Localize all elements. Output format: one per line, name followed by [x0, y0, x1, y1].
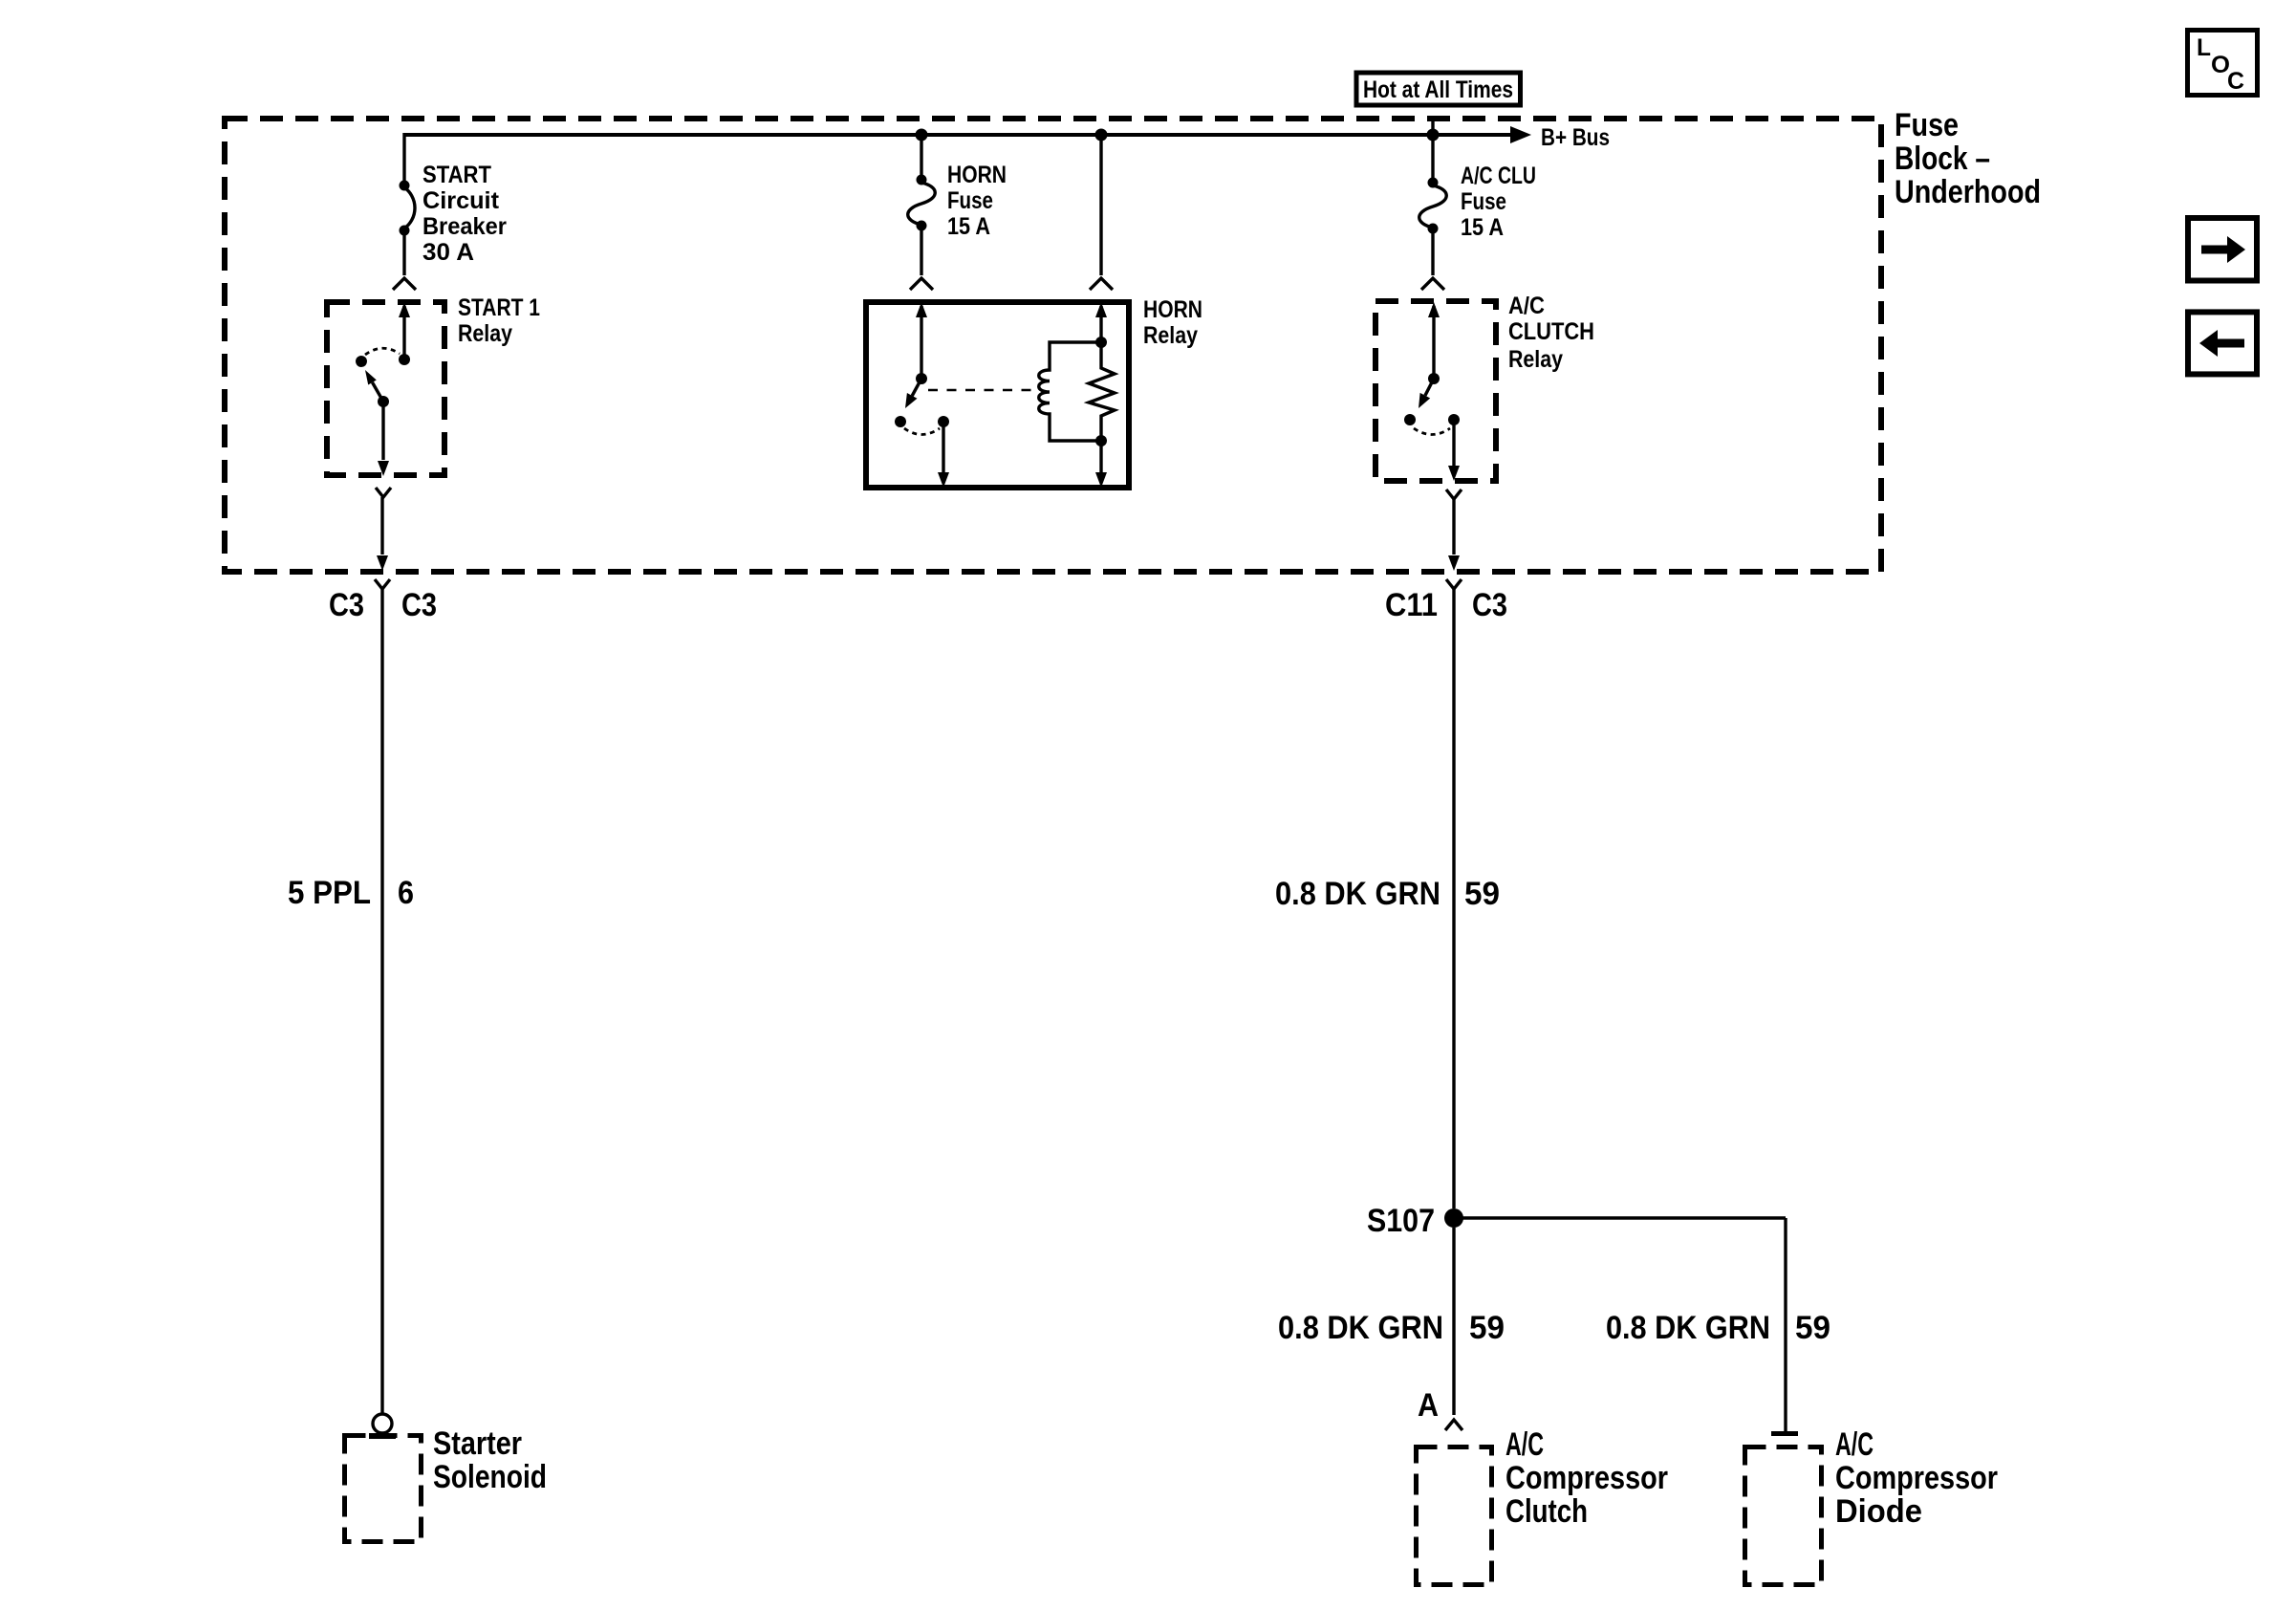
connector chevron into start relay — [393, 278, 416, 290]
label Starter Solenoid — [433, 1425, 547, 1495]
svg-text:A/C: A/C — [1508, 293, 1545, 319]
svg-text:A: A — [1418, 1387, 1439, 1424]
horn relay switch input line — [920, 306, 922, 379]
fuse block underhood dashed box — [225, 119, 1881, 572]
svg-text:C3: C3 — [1472, 587, 1507, 623]
label START Circuit Breaker 30 A — [422, 162, 507, 266]
svg-text:59: 59 — [1464, 876, 1500, 912]
svg-text:C3: C3 — [401, 587, 437, 623]
svg-text:Clutch: Clutch — [1505, 1493, 1588, 1530]
svg-text:0.8 DK GRN: 0.8 DK GRN — [1606, 1310, 1770, 1346]
wire arrow at fuse block exit left — [377, 555, 388, 571]
wire arrow at fuse block exit right — [1448, 555, 1460, 571]
ac relay switch arm with arrow — [1419, 379, 1434, 408]
junction dot bus-horn fuse — [916, 129, 928, 141]
wire bus to horn fuse — [920, 135, 922, 177]
start relay dashed actuation arc — [365, 348, 400, 355]
wire hot at all times into ac fuse — [1431, 116, 1434, 180]
ac compressor clutch dashed box — [1417, 1447, 1492, 1585]
connector chevron into horn relay left — [910, 278, 933, 290]
wire from bus to circuit breaker — [402, 133, 405, 182]
svg-text:Breaker: Breaker — [422, 213, 507, 240]
wire branch down to diode — [1784, 1218, 1787, 1432]
horn relay throw contact left — [895, 416, 906, 427]
wire B+ bus horizontal — [404, 133, 1512, 137]
fuse HORN 15A symbol — [908, 175, 936, 231]
svg-text:0.8 DK GRN: 0.8 DK GRN — [1275, 876, 1440, 912]
legend right arrow box — [2188, 218, 2257, 281]
svg-text:HORN: HORN — [1143, 296, 1202, 323]
label HORN Fuse 15 A — [947, 162, 1007, 240]
svg-text:Hot at All Times: Hot at All Times — [1363, 76, 1513, 103]
svg-text:Circuit: Circuit — [422, 187, 500, 214]
splice S107 dot — [1444, 1208, 1463, 1228]
start relay input arrow up — [399, 302, 410, 317]
svg-text:Diode: Diode — [1835, 1493, 1922, 1530]
starter solenoid dashed box — [345, 1436, 422, 1542]
svg-text:L: L — [2197, 34, 2211, 61]
label A/C CLUTCH Relay — [1508, 293, 1594, 373]
wire horn fuse to horn relay — [920, 228, 922, 275]
horn relay coil top node — [1095, 337, 1107, 348]
connector C3 fork below fuse block — [375, 579, 390, 589]
ac relay input line — [1432, 306, 1435, 379]
svg-text:C3: C3 — [329, 587, 364, 623]
ac relay switch pivot — [1428, 373, 1440, 384]
svg-text:Underhood: Underhood — [1895, 174, 2041, 210]
start relay common contact — [378, 396, 389, 407]
svg-text:A/C: A/C — [1505, 1426, 1544, 1463]
label A/C CLU Fuse 15 A — [1461, 163, 1536, 241]
svg-text:6: 6 — [398, 875, 414, 911]
fuse AC CLU 15A symbol — [1419, 178, 1447, 234]
circuit breaker START 30A symbol — [400, 181, 416, 236]
svg-text:Fuse: Fuse — [947, 187, 993, 214]
label START 1 Relay — [458, 294, 540, 347]
connector fork below start relay — [376, 488, 391, 555]
horn relay switch arm with arrow — [905, 379, 921, 408]
svg-text:START 1: START 1 — [458, 294, 540, 321]
connector chevron into clutch — [1445, 1420, 1462, 1430]
connector chevron into ac relay — [1421, 278, 1444, 290]
legend left arrow box — [2188, 312, 2257, 374]
start relay output line with arrow — [378, 402, 389, 476]
svg-text:59: 59 — [1795, 1310, 1830, 1346]
svg-text:Solenoid: Solenoid — [433, 1459, 547, 1495]
legend LOC box — [2188, 31, 2258, 96]
connector fork below ac relay — [1446, 490, 1462, 555]
svg-text:C11: C11 — [1385, 587, 1438, 623]
relay A/C CLUTCH dashed box — [1375, 301, 1496, 481]
wire c11 to splice S107 — [1452, 589, 1455, 1208]
svg-text:Relay: Relay — [1143, 322, 1198, 349]
horn relay actuation dashed link — [928, 389, 1034, 391]
ac relay dashed throw arc — [1414, 428, 1450, 435]
svg-text:Relay: Relay — [1508, 346, 1563, 373]
svg-text:C: C — [2227, 68, 2244, 95]
svg-text:59: 59 — [1469, 1310, 1505, 1346]
svg-text:CLUTCH: CLUTCH — [1508, 318, 1594, 345]
svg-text:S107: S107 — [1367, 1203, 1435, 1239]
svg-text:30 A: 30 A — [422, 239, 474, 266]
svg-text:Relay: Relay — [458, 320, 512, 347]
horn relay dashed throw arc — [904, 428, 940, 435]
wire bus to horn relay coil — [1099, 137, 1102, 275]
wire ac fuse to ac relay — [1431, 231, 1434, 275]
horn relay coil bottom node — [1095, 435, 1107, 446]
ac compressor diode dashed box — [1745, 1447, 1822, 1585]
junction dot bus-horn relay coil — [1095, 129, 1108, 141]
ac relay input arrow up — [1428, 302, 1440, 317]
horn relay switch pivot — [916, 373, 927, 384]
start relay switch arm with arrow — [365, 370, 383, 402]
svg-text:Fuse: Fuse — [1461, 188, 1506, 215]
relay START 1 dashed box — [327, 302, 444, 475]
starter solenoid ring terminal — [369, 1414, 396, 1439]
ac relay throw contact left — [1404, 414, 1416, 425]
svg-text:A/C CLU: A/C CLU — [1461, 163, 1536, 189]
label A/C Compressor Clutch — [1505, 1426, 1668, 1530]
label A/C Compressor Diode — [1835, 1426, 1998, 1530]
svg-text:A/C: A/C — [1835, 1426, 1874, 1463]
ac relay output line with arrow — [1448, 420, 1460, 481]
node Hot at All Times label box — [1356, 73, 1521, 105]
svg-text:START: START — [422, 162, 491, 188]
horn relay coil feed line — [1099, 306, 1102, 342]
svg-text:15 A: 15 A — [947, 213, 990, 240]
connector C11-C3 fork below fuse block — [1446, 579, 1462, 589]
horn relay switch input arrow up — [916, 302, 927, 317]
horn relay output line with arrow — [938, 422, 949, 488]
wire to starter solenoid — [380, 589, 383, 1414]
label Fuse Block - Underhood — [1895, 107, 2041, 210]
svg-text:Fuse: Fuse — [1895, 107, 1959, 143]
junction dot bus-ac fuse — [1427, 129, 1440, 141]
start relay fixed contact right — [399, 354, 410, 365]
connector chevron into horn relay right — [1090, 278, 1113, 290]
node B+ Bus arrow and label — [1510, 124, 1610, 151]
horn relay throw contact right — [938, 416, 949, 427]
wire splice to ac compressor clutch — [1452, 1228, 1455, 1415]
relay HORN solid box — [866, 302, 1129, 488]
horn relay resistor — [1089, 342, 1115, 441]
svg-text:Starter: Starter — [433, 1425, 522, 1462]
svg-text:B+ Bus: B+ Bus — [1541, 124, 1610, 151]
diode terminal bar — [1771, 1431, 1798, 1436]
start relay input line — [402, 306, 405, 359]
svg-text:0.8 DK GRN: 0.8 DK GRN — [1278, 1310, 1443, 1346]
svg-text:5 PPL: 5 PPL — [288, 875, 371, 911]
svg-text:15 A: 15 A — [1461, 214, 1504, 241]
horn relay coil feed arrow up — [1095, 302, 1107, 317]
svg-text:HORN: HORN — [947, 162, 1007, 188]
svg-text:Compressor: Compressor — [1835, 1460, 1998, 1496]
wire splice branch horizontal — [1454, 1216, 1786, 1219]
label HORN Relay — [1143, 296, 1202, 349]
horn relay coil output line with arrow — [1095, 441, 1107, 488]
svg-text:Block –: Block – — [1895, 141, 1990, 177]
start relay fixed contact left — [356, 356, 367, 367]
svg-text:Compressor: Compressor — [1505, 1460, 1668, 1496]
ac relay throw contact right — [1448, 414, 1460, 425]
wire breaker to start relay — [402, 233, 405, 275]
horn relay coil winding — [1039, 342, 1101, 441]
